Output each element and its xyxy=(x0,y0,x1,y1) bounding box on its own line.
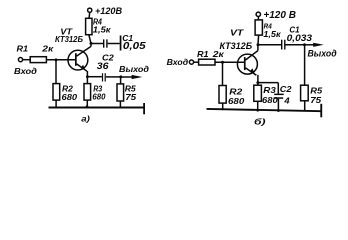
svg-text:КТ312Б: КТ312Б xyxy=(55,35,83,44)
wire R5 to bus xyxy=(119,101,121,108)
svg-text:75: 75 xyxy=(125,93,137,102)
svg-text:R3: R3 xyxy=(263,86,276,95)
transistor VT КТ312Б (а) xyxy=(68,46,91,71)
output arrow (а) xyxy=(121,75,143,79)
svg-text:75: 75 xyxy=(310,96,322,105)
capacitor C1 (б) xyxy=(281,40,286,50)
label R1 2к (б) xyxy=(197,49,225,59)
svg-text:R1: R1 xyxy=(17,44,29,54)
label C2 36 (а) xyxy=(97,53,114,71)
label Выход (а) xyxy=(119,65,150,75)
bus end bar (а) xyxy=(143,103,145,114)
bus end bar (б) xyxy=(320,104,322,118)
svg-text:680: 680 xyxy=(228,97,244,106)
node R3 bus (б) xyxy=(256,109,259,112)
resistor R3 (б) xyxy=(254,85,262,101)
resistor R3 (а) xyxy=(84,84,91,101)
ground bus (а) xyxy=(49,107,145,109)
label R1 2к (а) xyxy=(17,44,55,54)
svg-text:C2: C2 xyxy=(280,85,292,94)
label C1 0,05 (а) xyxy=(122,34,146,52)
label VT КТ312Б (б) xyxy=(220,28,253,52)
svg-text:Вход: Вход xyxy=(167,57,189,67)
svg-text:б): б) xyxy=(254,117,266,127)
svg-text:680: 680 xyxy=(62,93,78,102)
label а) xyxy=(81,114,90,123)
transistor VT КТ312Б (б) xyxy=(237,51,258,76)
resistor R4 (а) xyxy=(86,18,92,34)
power terminal +120 В (б) xyxy=(256,12,260,20)
node collector (б) xyxy=(257,43,260,46)
label +120В (а) xyxy=(95,6,122,16)
resistor R5 (б) xyxy=(301,85,309,101)
svg-text:R2: R2 xyxy=(229,88,242,97)
svg-text:а): а) xyxy=(81,114,90,123)
label Вход (а) xyxy=(14,66,38,75)
end terminal bar top (а) xyxy=(120,36,122,51)
wire R2 to bus xyxy=(55,100,57,107)
svg-text:1,5к: 1,5к xyxy=(93,25,111,34)
resistor R1 (б) xyxy=(199,59,215,65)
resistor R2 (а) xyxy=(53,84,60,101)
label Вход (б) xyxy=(167,57,189,67)
capacitor C2 (а) xyxy=(102,73,106,81)
label C1 0,033 (б) xyxy=(287,26,313,45)
label VT КТ312Б (а) xyxy=(55,27,83,44)
wire R1 to base xyxy=(46,59,75,61)
wire base node down to R2 xyxy=(55,60,57,84)
svg-text:+120В: +120В xyxy=(95,6,122,16)
wire R2 to bus (б) xyxy=(222,103,224,110)
svg-text:R1: R1 xyxy=(197,49,209,59)
label R4 1,5к (а) xyxy=(93,17,111,34)
svg-text:VT: VT xyxy=(230,28,245,38)
wire C1 to end bar xyxy=(108,43,120,45)
svg-text:0,033: 0,033 xyxy=(287,33,313,44)
svg-text:R5: R5 xyxy=(310,86,322,95)
resistor R2 (б) xyxy=(219,86,226,104)
svg-text:Выход: Выход xyxy=(119,65,150,75)
wire R1 to base (б) xyxy=(215,61,244,63)
resistor R4 (б) xyxy=(255,20,262,35)
ground bus (б) xyxy=(207,109,322,111)
wire R4 to collector node (б) xyxy=(257,35,260,51)
svg-text:4: 4 xyxy=(283,96,290,105)
svg-text:36: 36 xyxy=(97,62,109,72)
power terminal +120В (а) xyxy=(88,8,92,18)
input terminal (б) xyxy=(189,60,193,64)
capacitor C1 (а) xyxy=(103,39,108,47)
wire C2 to bus (б) xyxy=(277,99,279,112)
svg-text:1,5к: 1,5к xyxy=(263,29,281,38)
label R3 680 (а) xyxy=(92,84,106,101)
wire emitter node to R3 (б) xyxy=(257,83,259,86)
node base (а) xyxy=(55,58,58,61)
wire input to R1 (б) xyxy=(194,61,199,63)
wire output node down to R5 (б) xyxy=(304,45,306,85)
wire collector node to C1 xyxy=(91,43,103,45)
label R4 1,5к (б) xyxy=(263,23,281,38)
node base (б) xyxy=(221,61,224,64)
wire base node down to R2 (б) xyxy=(222,62,224,85)
label +120 В (б) xyxy=(263,10,296,21)
node emitter (б) xyxy=(256,81,259,84)
wire R3 to bus (б) xyxy=(257,101,259,111)
capacitor C2 (б) xyxy=(274,94,284,99)
wire C1 to output node (б) xyxy=(286,44,305,46)
label R5 75 (б) xyxy=(310,86,322,105)
label C2 4 (б) xyxy=(280,85,292,105)
resistor R1 (а) xyxy=(30,57,46,63)
node collector (а) xyxy=(90,42,93,45)
svg-text:680: 680 xyxy=(92,93,106,102)
label Выход (б) xyxy=(308,48,337,58)
wire C2 to output node xyxy=(106,76,121,78)
wire R3 to bus xyxy=(86,100,88,107)
wire input to R1 xyxy=(23,59,30,61)
svg-text:Выход: Выход xyxy=(308,48,337,58)
wire collector node to C1 (б) xyxy=(258,44,281,46)
node output (а) xyxy=(119,75,122,78)
svg-text:0,05: 0,05 xyxy=(123,41,147,52)
svg-text:680: 680 xyxy=(262,96,278,105)
wire emitter line xyxy=(87,71,102,84)
label R5 75 (а) xyxy=(125,85,138,102)
node R3 bus (а) xyxy=(86,105,89,108)
resistor R5 (а) xyxy=(117,84,124,101)
node C2 bus (б) xyxy=(277,109,280,112)
wire output node down to R5 xyxy=(120,77,122,84)
node output (б) xyxy=(303,43,306,46)
label б) xyxy=(254,117,266,127)
svg-text:+120 В: +120 В xyxy=(263,10,296,21)
label R2 680 (б) xyxy=(228,88,244,106)
svg-text:КТ312Б: КТ312Б xyxy=(220,41,253,51)
wire R5 to bus (б) xyxy=(304,101,306,111)
output arrow (б) xyxy=(305,43,324,47)
svg-text:2к: 2к xyxy=(41,44,54,53)
wire emitter jog to C2 (б) xyxy=(258,75,278,94)
input terminal (а) xyxy=(18,58,22,62)
label R2 680 (а) xyxy=(62,85,78,102)
svg-text:Вход: Вход xyxy=(14,66,38,75)
wire R4 to collector node xyxy=(89,35,91,47)
node emitter (а) xyxy=(86,75,89,78)
label R3 680 (б) xyxy=(262,86,278,105)
